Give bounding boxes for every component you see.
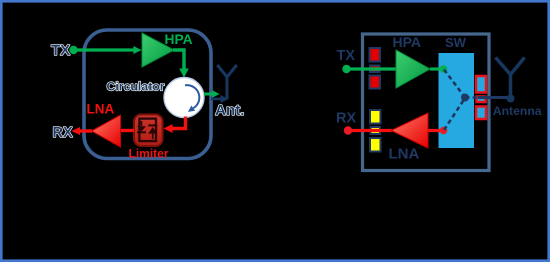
wire limiter to LNA: [120, 129, 134, 132]
node TX terminal (right): [342, 65, 350, 73]
svg-text:Ant.: Ant.: [215, 102, 245, 119]
arrowhead into HPA (left): [134, 46, 142, 54]
wire HPA to SW: [430, 67, 441, 70]
amplifier LNA (left): [92, 115, 121, 147]
wire LNA to SW: [428, 129, 441, 132]
arrowhead navy into antenna: [221, 95, 229, 103]
enclosure: right front-end module: [363, 34, 490, 171]
svg-text:HPA: HPA: [393, 34, 422, 50]
svg-text:RX: RX: [336, 111, 356, 127]
svg-text:LNA: LNA: [87, 102, 115, 117]
svg-text:Antenna: Antenna: [493, 104, 542, 118]
arrowhead into limiter: [164, 124, 173, 133]
switch SW body: [439, 53, 475, 148]
switch arm TX (dashed): [444, 70, 465, 98]
node SW input RX (red): [440, 127, 448, 135]
antenna Ant. (left): [217, 65, 236, 99]
wire RX to LNA (right): [351, 129, 392, 132]
wire LNA to RX: [79, 129, 92, 132]
switch arm RX (dashed): [444, 98, 465, 130]
svg-text:LNA: LNA: [389, 146, 420, 163]
svg-text:SW: SW: [445, 35, 467, 50]
filter caps TX row (red, navy border): [370, 48, 381, 89]
antenna (right): [507, 95, 515, 103]
svg-text:Limiter: Limiter: [129, 147, 169, 161]
svg-text:HPA: HPA: [165, 32, 193, 47]
filter caps RX row (yellow, navy border): [370, 110, 381, 152]
svg-text:RX: RX: [53, 125, 73, 141]
svg-text:TX: TX: [51, 42, 70, 59]
limiter (anti-parallel diode pair): [134, 115, 163, 147]
amplifier LNA (right): [391, 113, 428, 148]
circulator rotation arrow: [185, 85, 199, 108]
node SW input TX (green): [440, 65, 448, 73]
filter caps antenna (red border, cyan fill): [476, 76, 486, 119]
arrowhead RX output: [72, 127, 81, 135]
node RX terminal (right): [344, 126, 352, 134]
amplifier HPA (right): [396, 50, 430, 88]
enclosure: left front-end module (rounded box): [84, 30, 211, 159]
wire circulator to limiter (red): [170, 117, 186, 129]
wire TX input to HPA (left): [76, 48, 135, 51]
svg-text:Circulator: Circulator: [107, 80, 165, 94]
node TX terminal (left): [69, 46, 77, 54]
wire HPA to circulator: [173, 50, 184, 71]
circulator: [164, 78, 204, 118]
svg-text:TX: TX: [337, 48, 356, 64]
wire circulator to antenna (green, crosses enclosure): [204, 93, 213, 96]
amplifier HPA (left): [142, 33, 174, 67]
wire SW common to antenna (dashed then solid): [465, 96, 478, 99]
wire TX to HPA (right): [349, 67, 397, 70]
arrowhead into circulator: [179, 69, 189, 78]
node SW common: [461, 94, 469, 102]
antenna feed line (left, navy): [211, 98, 221, 101]
arrowhead green toward antenna: [213, 90, 220, 97]
